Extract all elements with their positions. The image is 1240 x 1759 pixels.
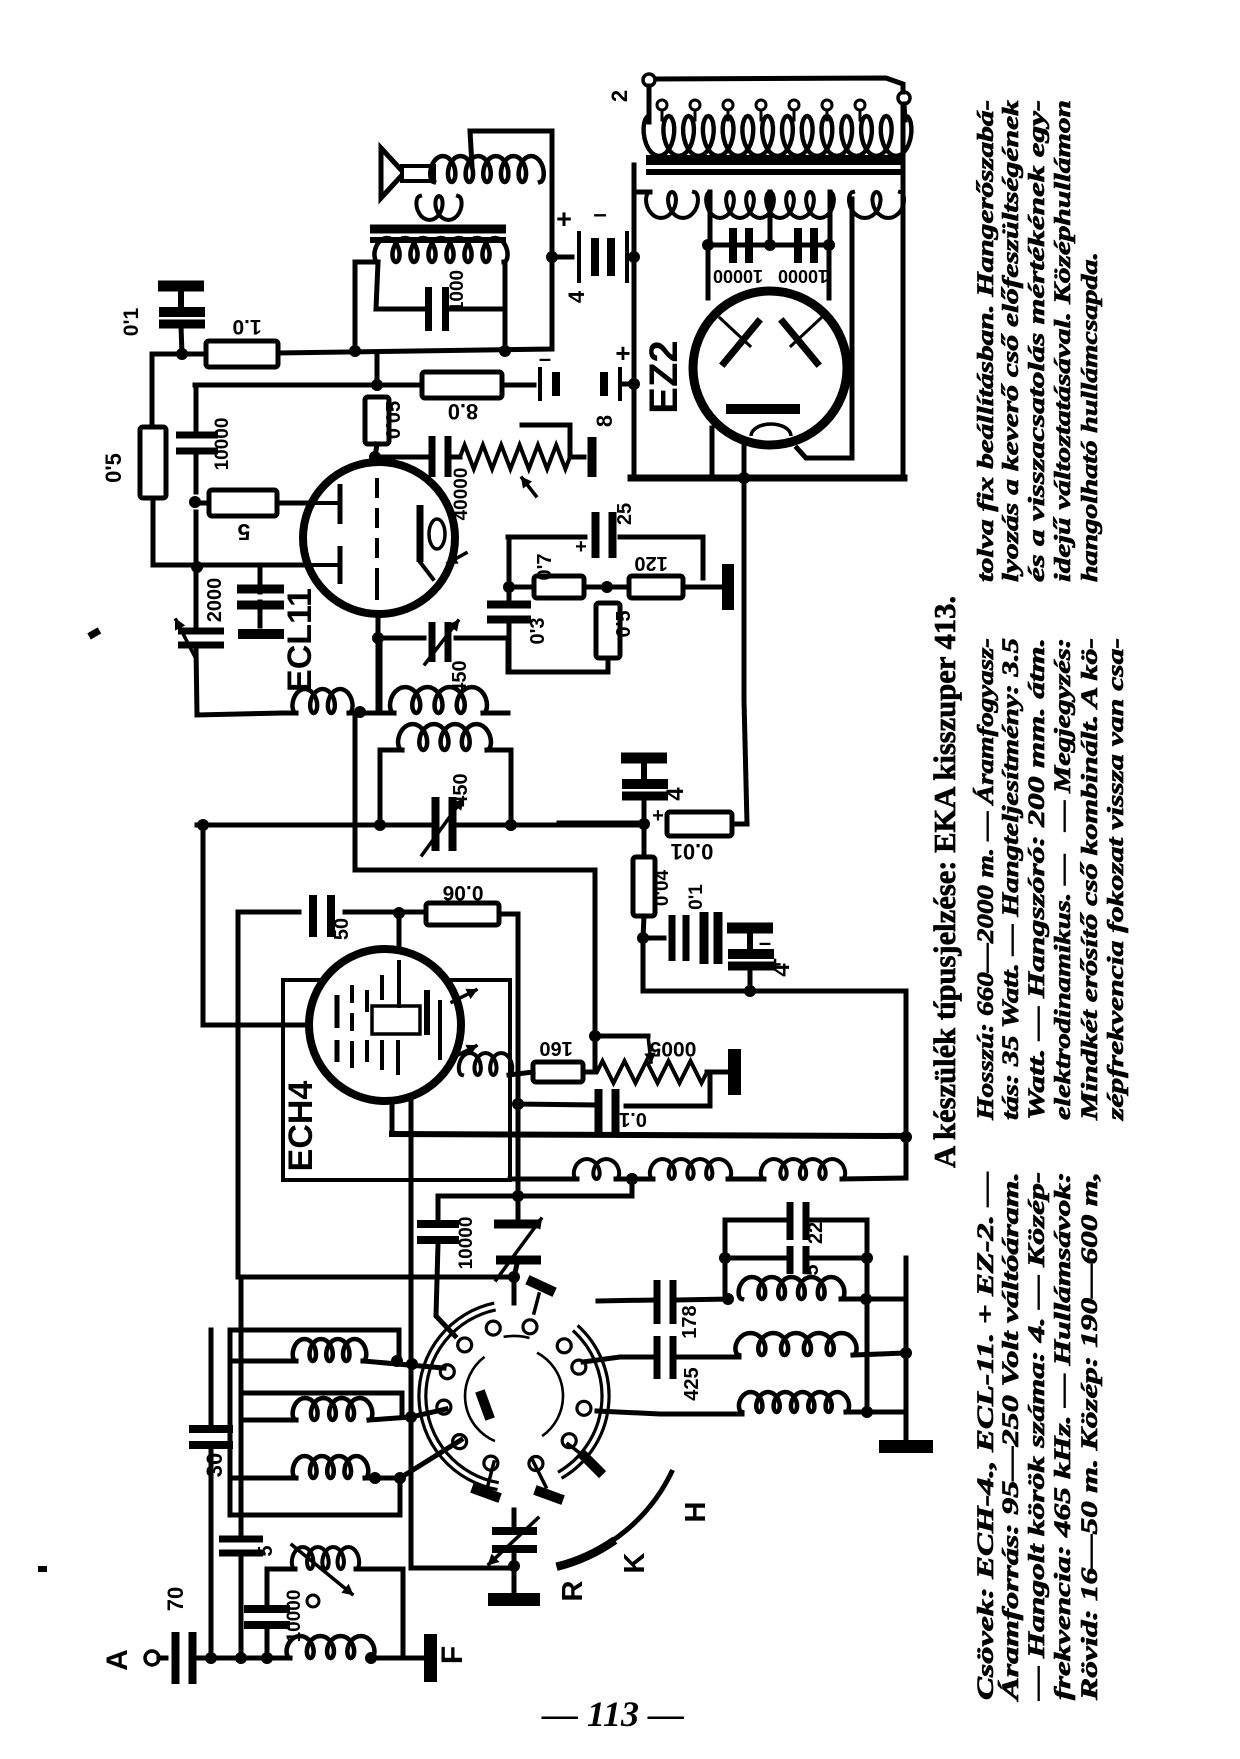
svg-text:EZ2: EZ2 (642, 340, 686, 413)
svg-text:hangolható hullámcsapda.: hangolható hullámcsapda. (1077, 252, 1102, 582)
junction dot x518 (512, 1098, 524, 1110)
svg-text:0'5: 0'5 (101, 453, 126, 483)
wire cap10000a lead (265, 1627, 270, 1658)
label 0'3 (527, 617, 549, 644)
wire pot top loop (522, 425, 570, 457)
capacitor 8uF plates (538, 367, 622, 401)
junction dot anode (369, 451, 381, 463)
capacitor 10000 v (417, 1220, 459, 1244)
trimmer 450-2 (432, 797, 457, 851)
svg-text:ECL11: ECL11 (281, 588, 319, 692)
pot wiper arrow (522, 478, 536, 496)
tube ECH4 envelope (309, 949, 461, 1101)
coil choke 3 (761, 1159, 845, 1179)
transformer secondary 2 (706, 192, 834, 218)
resistor 160 (533, 1062, 583, 1082)
caption col2 line6 (1103, 638, 1128, 1121)
wire x241 upper (239, 1277, 244, 1533)
label ECL11 (281, 588, 319, 692)
label plus small (652, 805, 664, 827)
wire filament right (797, 199, 852, 458)
bus y825 (197, 823, 432, 828)
svg-text:K: K (619, 1552, 651, 1573)
junction dot 938 (637, 932, 649, 944)
wire EC2 to bus (622, 382, 634, 387)
transformer primary taps (657, 100, 865, 120)
svg-text:2000: 2000 (204, 578, 226, 623)
svg-text:lyozás a keverő cső előfeszült: lyozás a keverő cső előfeszültségének (998, 99, 1023, 582)
svg-text:22: 22 (805, 1222, 827, 1244)
label 5 (237, 519, 250, 545)
label plus EC2 (615, 338, 630, 368)
svg-text:R: R (557, 1580, 589, 1601)
transformer secondary 1 (646, 192, 698, 218)
label 10000 ant (284, 1590, 305, 1643)
junction dots bus825 (197, 818, 650, 831)
terminal A (145, 1651, 159, 1665)
wire tuning stub (512, 1510, 517, 1526)
junction dots caps row (702, 239, 835, 251)
label EZ2 (642, 340, 686, 413)
label 0'5 left (101, 453, 126, 483)
label 425 (681, 1367, 703, 1400)
coil choke 2 (650, 1159, 731, 1179)
label K (619, 1552, 651, 1573)
coil L5 antenna (287, 1636, 375, 1658)
wire x196 lower (196, 648, 281, 715)
svg-text:425: 425 (681, 1367, 703, 1400)
label 4 lower (768, 963, 795, 977)
wire EC1 row right (632, 255, 636, 260)
resistor 0.7 (534, 576, 584, 598)
svg-text:— 113 —: — 113 — (541, 1694, 684, 1734)
wire sec1 stub (634, 190, 650, 195)
junction dot y385 left (371, 379, 383, 391)
svg-text:5: 5 (237, 519, 250, 545)
tuning capacitor (492, 1527, 537, 1553)
wire node A2 row (278, 131, 552, 353)
label 10.0 (671, 839, 714, 864)
wire x211 upper (209, 1330, 214, 1426)
potentiometer 5000 (597, 1061, 707, 1083)
wire y1196 row (438, 1179, 632, 1196)
wire LC2 right side (509, 750, 514, 825)
svg-text:50: 50 (331, 918, 353, 940)
wire cathode down (376, 614, 381, 713)
wire r160 leads (509, 1072, 533, 1075)
wire cap2000 stem2 (258, 602, 263, 626)
wire y912 row (238, 910, 299, 915)
wire choke right (842, 1178, 906, 1179)
svg-text:ECH4: ECH4 (282, 1081, 320, 1172)
junction dot pot left (589, 1030, 601, 1042)
box can C (230, 1440, 400, 1515)
wire anode stub (375, 444, 377, 463)
wire R0.5 to grid row (153, 498, 337, 565)
wire R200 right (499, 914, 518, 1196)
wire cap100 lead (514, 1264, 517, 1277)
ground tuning (488, 1554, 540, 1606)
label 8.0 (448, 399, 479, 424)
capacitor +4 upper (621, 753, 668, 801)
svg-text:10000: 10000 (212, 418, 233, 471)
wire L3 to pin (400, 1440, 461, 1478)
bus EZ2 bottom (631, 475, 904, 482)
wire L2 right (369, 1409, 446, 1420)
coil L3 (293, 1456, 369, 1478)
wire antenna lead (159, 1656, 166, 1661)
svg-text:30: 30 (202, 1453, 227, 1477)
svg-text:— Hangolt körök száma: 4. — Kö: — Hangolt körök száma: 4. — Közép- (1024, 1172, 1049, 1701)
wire y1258 row2 (812, 1256, 867, 1261)
label 1.0 (232, 315, 261, 338)
label 178 (679, 1305, 701, 1338)
switch wiper arcs (465, 1336, 563, 1441)
junction dot EC2 bus (628, 378, 640, 390)
wire coilA left (281, 711, 296, 716)
wire sec2 right (828, 192, 833, 245)
resistor 10.0 (667, 812, 732, 836)
wire left drop to R 0.5 (150, 354, 155, 427)
label plus 25 (575, 536, 587, 558)
wire wiper loop (597, 1034, 648, 1039)
capacitor 1000 (425, 287, 449, 331)
caption col2 line1 (973, 638, 998, 1121)
trimmer cap left (178, 628, 224, 649)
svg-text:Hosszú: 660—2000 m. — Áramfogy: Hosszú: 660—2000 m. — Áramfogyasz- (973, 638, 998, 1121)
label 4 upper (662, 787, 689, 801)
capacitor 0.1 pair (669, 912, 723, 964)
wire pot right drop (626, 1072, 710, 1106)
switch rotor slug C (578, 1450, 606, 1478)
ground res120 (683, 564, 734, 610)
junction dot 1277 (508, 1271, 520, 1283)
svg-text:8: 8 (592, 415, 617, 427)
junction dot res5 (189, 496, 203, 573)
wire EC1 row (552, 255, 572, 260)
wire x411 long bus (411, 1096, 514, 1568)
bus y1134 (392, 1134, 906, 1136)
label F (436, 1646, 469, 1664)
label 450 LC2 (450, 773, 472, 806)
coil band 3 (739, 1392, 849, 1412)
coil L1 (293, 1339, 367, 1361)
wire primary end L (647, 86, 652, 122)
box can A (230, 1330, 399, 1361)
wire x403 up (356, 1569, 403, 1658)
wire cap10000L stem2 (194, 454, 199, 492)
svg-text:Watt. — Hangszóró: 200 mm. átm: Watt. — Hangszóró: 200 mm. átm. (1024, 638, 1049, 1120)
caption col3 line4 (1050, 100, 1075, 582)
coil choke 1 (574, 1159, 619, 1179)
box ECH4 osc section (283, 980, 510, 1180)
svg-text:Áramforrás: 95—250 Volt váltóá: Áramforrás: 95—250 Volt váltóáram. (998, 1172, 1023, 1703)
caption col1 line2 (998, 1172, 1023, 1703)
resistor 0.04 (633, 857, 655, 916)
wire cap10000v lead (436, 1244, 455, 1336)
svg-text:+: + (556, 204, 572, 234)
svg-text:0'04: 0'04 (652, 869, 673, 906)
tube ECH4 arrow1 (452, 990, 476, 1002)
trimmer 450-1 arrow (425, 621, 458, 664)
resistor 0.05 (365, 397, 389, 444)
label minus lower (759, 930, 771, 955)
svg-text:10000: 10000 (778, 266, 828, 286)
wire sec2 center (768, 192, 773, 245)
label 22 (805, 1222, 827, 1244)
wire bus x634 (632, 165, 637, 478)
svg-text:+: + (652, 805, 664, 827)
svg-text:4: 4 (662, 787, 689, 801)
wire x355 down (355, 713, 595, 1036)
switch rotor slug A (525, 1275, 556, 1297)
svg-text:178: 178 (679, 1305, 701, 1338)
label 200 (443, 881, 484, 904)
wire ladder left rail (723, 1220, 728, 1299)
wire coilB right (483, 711, 508, 716)
svg-text:F: F (436, 1646, 469, 1664)
transformer secondary 3 (849, 192, 904, 218)
bus y825c (560, 821, 644, 828)
wire y537 row (508, 535, 585, 540)
wire 425 right (677, 1355, 739, 1360)
wire sec2 left (708, 192, 713, 245)
wire y938 row (643, 936, 664, 941)
wire cap 0.1 lead (181, 326, 182, 354)
label 5 small (255, 1545, 277, 1556)
trimmer 450-1 (429, 622, 452, 662)
resistor 0.5b (596, 603, 620, 658)
terminal mains 1 (643, 74, 655, 86)
wire L4 drop (265, 1569, 270, 1603)
wire choke join2 (728, 1177, 764, 1182)
svg-text:10000: 10000 (456, 1217, 477, 1270)
wire choke join (616, 1177, 653, 1182)
label 0'7 (534, 553, 556, 580)
junction dot tuning (508, 1560, 520, 1572)
wire pot right (570, 455, 584, 460)
capacitor 25 (592, 512, 617, 558)
label 160 (539, 1037, 572, 1059)
capacitor pot ground (588, 437, 597, 477)
caption col1 line4 (1050, 1172, 1075, 1700)
svg-text:4: 4 (564, 290, 589, 303)
coil IF1 (390, 687, 487, 713)
label 40000 (451, 468, 472, 521)
wire box bottom to coils (510, 1177, 577, 1182)
wire L4 left (267, 1567, 295, 1572)
wire LC2 left side (378, 750, 383, 825)
wire pin stem E (533, 1461, 546, 1487)
capacitor 100 trimmer (494, 1220, 541, 1265)
dial arc (556, 1470, 672, 1567)
ground F (403, 1634, 437, 1682)
wire B+ rail x747 (744, 478, 747, 824)
label 120 (634, 552, 667, 574)
wire y638 row2 (456, 636, 508, 641)
wire filament center (742, 446, 747, 478)
wire ECH4 k lead (390, 1101, 395, 1134)
svg-text:10000: 10000 (284, 1590, 305, 1643)
svg-text:10000: 10000 (713, 266, 763, 286)
speaker hum coil (416, 196, 461, 220)
svg-text:Rövid: 16—50 m. Közép: 190—600: Rövid: 16—50 m. Közép: 190—600 m, (1077, 1172, 1102, 1701)
switch rotor slug E (533, 1485, 565, 1505)
junction dots L3 (369, 1472, 406, 1484)
wire +4b lead (748, 971, 753, 991)
label 0'05 (383, 401, 405, 439)
wire voice coil to top (470, 131, 552, 166)
capacitor 70 (172, 1632, 197, 1684)
ground pot5000 (707, 1049, 741, 1095)
label 50 (331, 918, 353, 940)
svg-text:frekvencia: 465 kHz. — Hulláms: frekvencia: 465 kHz. — Hullámsávok: (1050, 1172, 1075, 1700)
output transformer primary (374, 238, 507, 262)
coil band 1 (739, 1277, 845, 1299)
svg-text:450: 450 (450, 773, 472, 806)
svg-text:0'1: 0'1 (120, 308, 143, 337)
transformer primary (644, 116, 912, 156)
label minus EC2 (539, 346, 551, 371)
junction dot choke (626, 1173, 638, 1185)
capacitor 10000 a (729, 228, 753, 263)
wire band2 right (853, 1353, 906, 1355)
capacitor 178 (654, 1280, 677, 1324)
tube ECH4 internals (335, 962, 443, 1075)
wire y1220 row (725, 1218, 784, 1223)
caption col3 line2 (998, 99, 1023, 582)
svg-text:8.0: 8.0 (448, 399, 479, 424)
capacitor 5 small (219, 1536, 263, 1557)
junction dots ladder (719, 1252, 912, 1418)
svg-text:és a visszacsatolás mértékének: és a visszacsatolás mértékének egy- (1024, 100, 1049, 582)
label 0.1b (686, 884, 707, 910)
wire y638 row (378, 636, 424, 641)
wire L1 right (363, 1361, 444, 1368)
svg-text:0005: 0005 (649, 1037, 696, 1060)
wire 8.0 to EC2 (502, 383, 534, 388)
wire antenna row (196, 1656, 290, 1661)
output transformer core (370, 225, 506, 244)
svg-text:2: 2 (607, 90, 632, 102)
wire y1258 row (725, 1256, 784, 1261)
svg-text:Csövek: ECH-4., ECL-11. + EZ-2: Csövek: ECH-4., ECL-11. + EZ-2. — (973, 1172, 998, 1700)
svg-text:1.0: 1.0 (232, 315, 261, 338)
svg-text:25: 25 (614, 503, 636, 525)
wire caps row (710, 243, 830, 248)
caption col1 line1 (973, 1172, 998, 1700)
tube ECL11 envelope (303, 462, 455, 614)
svg-text:A: A (101, 1649, 134, 1671)
svg-text:0.06: 0.06 (443, 881, 484, 904)
wire avc bus y991 (643, 938, 906, 1178)
svg-text:H: H (680, 1502, 712, 1523)
capacitor 10000 left (176, 432, 218, 455)
label 10000 b (778, 266, 828, 286)
switch rotor slug D (470, 1483, 502, 1503)
wire 07 to 120 (584, 585, 629, 590)
label 10000 left (212, 418, 233, 471)
capacitor 10000 ant (244, 1605, 290, 1629)
label 0.04 (652, 869, 673, 906)
wire cap100 stem (516, 1196, 521, 1220)
svg-text:1000: 1000 (447, 270, 468, 312)
label plus EC1 (556, 204, 572, 234)
resistor 5 (209, 490, 277, 516)
label 10000 a (713, 266, 763, 286)
wire cap C-1000 right lead (450, 307, 505, 312)
coil oscillator (459, 1053, 512, 1075)
capacitor 0.1 electrolytic (158, 281, 205, 329)
resistor 8.0 (422, 372, 502, 398)
coil L2 (293, 1398, 373, 1420)
switch outer arcs (419, 1303, 609, 1490)
wire cap25 right (620, 537, 703, 578)
ground bar cap2000 (238, 629, 284, 639)
svg-text:4: 4 (768, 963, 795, 977)
svg-text:0'1: 0'1 (686, 884, 707, 910)
caption col3 line1 (973, 100, 998, 582)
wire r160 right (583, 1070, 595, 1075)
wire cap10000L stem (194, 385, 199, 432)
wiper arrow 5000 (646, 1036, 654, 1062)
svg-text:+: + (615, 338, 630, 368)
tube EZ2 internals (720, 318, 821, 436)
label H (680, 1502, 712, 1523)
caption col2 line2 (998, 638, 1023, 1120)
wire pin stem D (488, 1462, 494, 1485)
junction dot y913 (393, 907, 405, 919)
tube ECH4 arrow2 (452, 1046, 476, 1058)
wire coilA right (349, 711, 394, 716)
wire L2 left (241, 1418, 296, 1423)
junction dots audio row (176, 345, 511, 360)
wire L1 left (230, 1359, 296, 1364)
wire node A1 row (152, 352, 205, 357)
speck 2 (38, 1566, 47, 1572)
trimmer arrow left (176, 620, 196, 659)
speaker horn (381, 148, 434, 198)
wire ant to gnd (371, 1656, 403, 1661)
wire +4 lead (642, 801, 647, 824)
coil IF2 (398, 724, 491, 750)
wire 178 right (677, 1299, 728, 1300)
ground switch right (879, 1428, 933, 1453)
wire y912 row2 (345, 910, 424, 915)
resistor 120 (629, 576, 683, 598)
wire anode ECH4 (397, 913, 402, 962)
box can B (241, 1393, 402, 1420)
wire L3 right (365, 1476, 400, 1481)
wire mains top (656, 78, 903, 92)
label ECH4 (282, 1081, 320, 1172)
svg-text:5: 5 (801, 1264, 823, 1275)
coil L4 arrow (292, 1545, 352, 1594)
wire x906 lower rail (904, 1258, 909, 1428)
label 25 (614, 503, 636, 525)
resistor 200 (426, 903, 499, 925)
caption col1 line3 (1024, 1172, 1049, 1701)
coil L4 variable (292, 1547, 359, 1569)
label R (557, 1580, 589, 1601)
svg-text:0.01: 0.01 (671, 839, 714, 864)
wire grid bus x196 (194, 512, 199, 630)
svg-text:elektrodinamikus. — — Megjeg: elektrodinamikus. — — Megjegyzés: (1050, 638, 1075, 1120)
wire R0.5b bottom (606, 658, 611, 672)
wire cap C-1000 left lead (376, 262, 425, 309)
junction dots y587 (503, 581, 613, 593)
capacitor 10000 b (794, 228, 818, 263)
